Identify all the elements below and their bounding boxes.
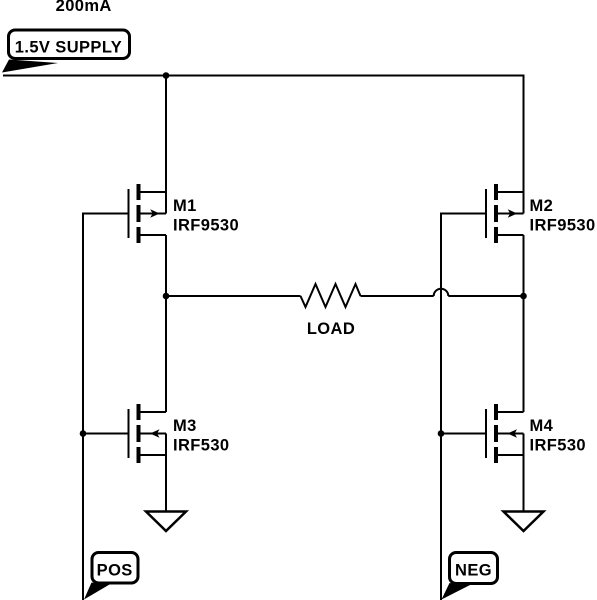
svg-text:M1: M1 — [173, 197, 197, 215]
svg-text:200mA: 200mA — [56, 0, 112, 15]
svg-text:LOAD: LOAD — [307, 320, 355, 338]
svg-text:IRF9530: IRF9530 — [530, 217, 596, 235]
svg-text:1.5V SUPPLY: 1.5V SUPPLY — [15, 38, 122, 56]
svg-text:IRF9530: IRF9530 — [173, 217, 239, 235]
svg-text:POS: POS — [97, 562, 133, 580]
svg-text:IRF530: IRF530 — [530, 437, 587, 455]
svg-text:IRF530: IRF530 — [173, 437, 230, 455]
svg-text:M4: M4 — [530, 417, 554, 435]
svg-text:M3: M3 — [173, 417, 197, 435]
svg-text:NEG: NEG — [455, 561, 492, 579]
svg-text:M2: M2 — [530, 197, 554, 215]
